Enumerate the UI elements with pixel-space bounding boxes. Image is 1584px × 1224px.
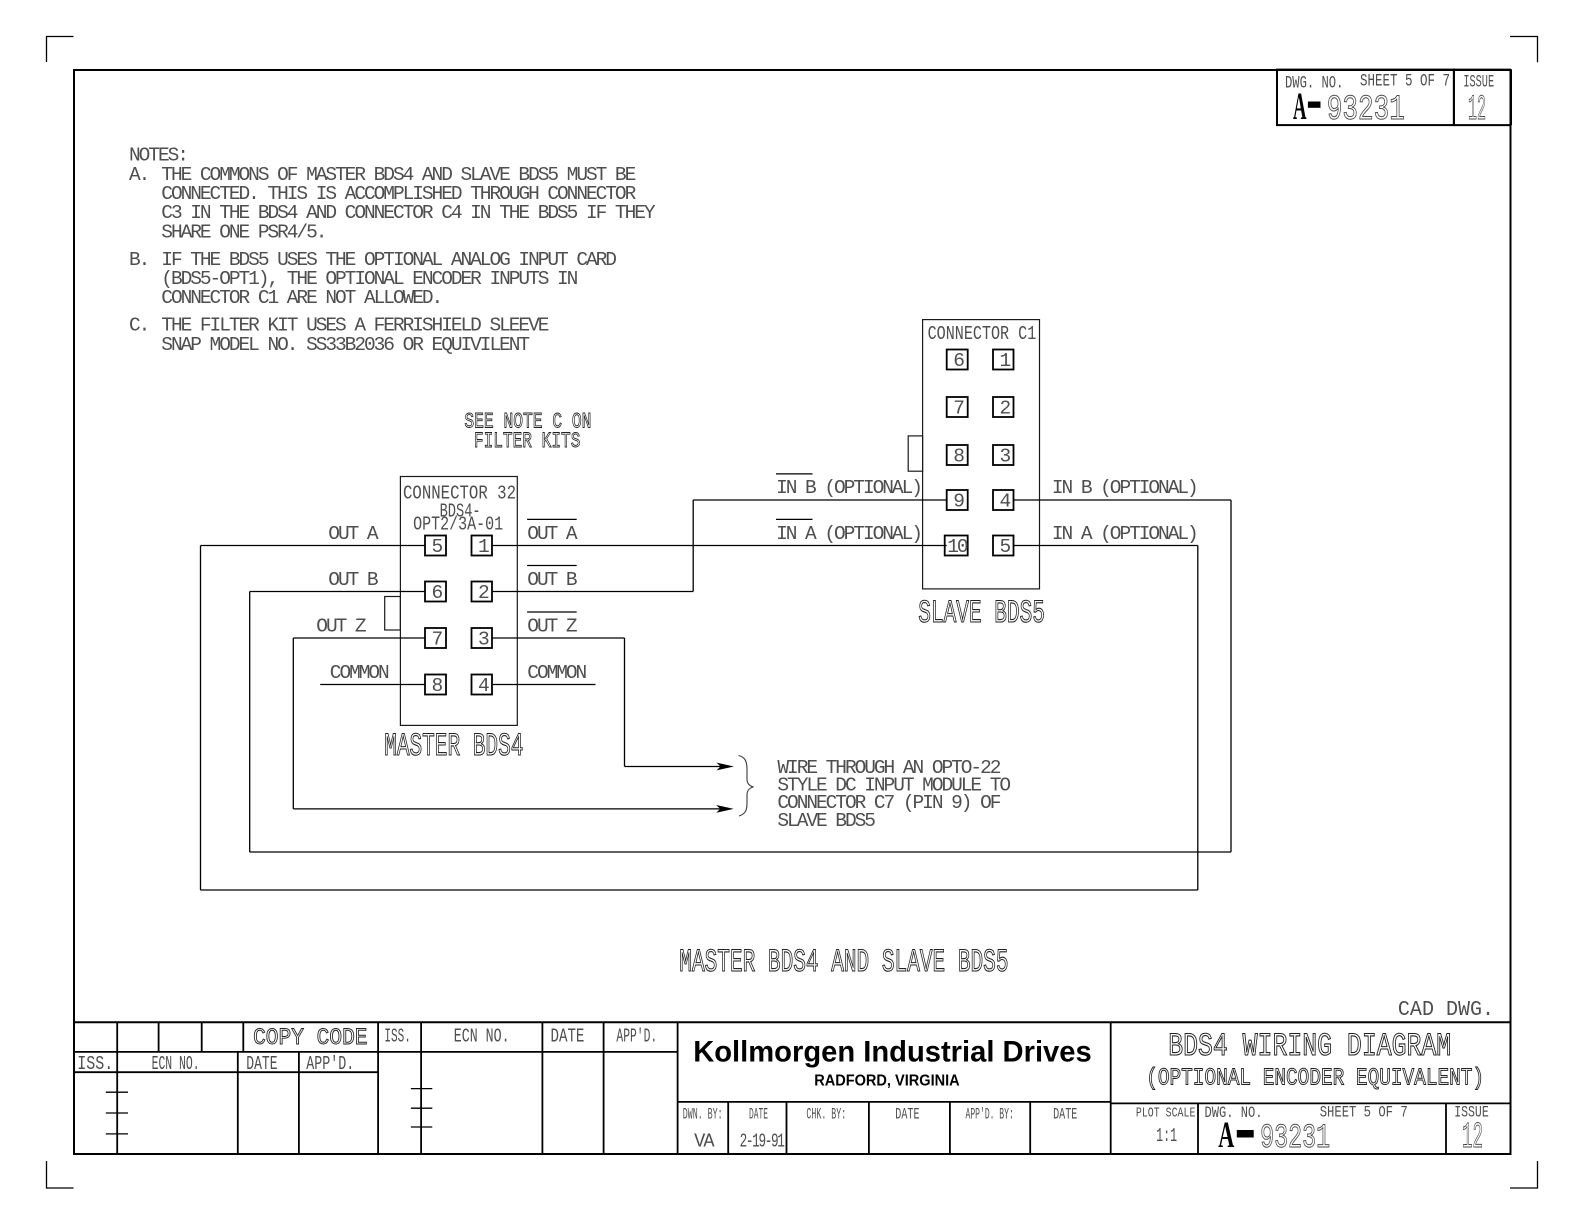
svg-text:5: 5	[432, 536, 443, 558]
wire OUT B left stub	[250, 591, 425, 593]
svg-text:C.: C.	[129, 315, 148, 337]
curly brace	[739, 756, 754, 817]
drawing title box	[1111, 1103, 1511, 1154]
pin 3 (master)	[472, 628, 493, 651]
svg-text:SLAVE BDS5: SLAVE BDS5	[777, 810, 875, 832]
corner mark bottom-right	[1510, 1161, 1538, 1188]
wire COMMON left stub	[320, 684, 425, 686]
note WIRE THROUGH AN OPTO-22 ...	[777, 757, 1010, 832]
company box Kollmorgen	[678, 1022, 1111, 1154]
pin 4 (slave)	[993, 490, 1014, 513]
arrowhead lower into brace	[716, 805, 734, 813]
pin 9 (slave)	[947, 490, 968, 513]
pin 3 (slave)	[993, 445, 1014, 468]
wire master pin 3 right	[492, 637, 625, 639]
svg-text:2-19-91: 2-19-91	[740, 1131, 785, 1153]
svg-text:CAD DWG.: CAD DWG.	[1398, 999, 1494, 1022]
label OUT A-bar (right) with overline	[527, 519, 578, 545]
svg-text:(OPTIONAL ENCODER EQUIVALENT): (OPTIONAL ENCODER EQUIVALENT)	[1146, 1066, 1484, 1093]
corner mark bottom-left	[47, 1161, 74, 1188]
svg-text:9: 9	[953, 491, 964, 513]
svg-text:7: 7	[432, 629, 443, 651]
svg-text:DWN. BY:: DWN. BY:	[683, 1105, 723, 1123]
wire OUT B loop left vertical	[249, 592, 251, 853]
corner mark top-left	[47, 37, 74, 63]
pin 5 (slave)	[993, 536, 1014, 559]
svg-text:4: 4	[478, 675, 489, 697]
wire master pin 2 right	[492, 591, 693, 593]
svg-text:ISS.: ISS.	[77, 1053, 113, 1075]
filter sleeve notch on slave connector	[908, 436, 922, 471]
svg-text:CHK. BY:: CHK. BY:	[806, 1105, 846, 1123]
svg-text:A: A	[1218, 1115, 1234, 1156]
svg-text:DATE: DATE	[551, 1026, 585, 1048]
svg-text:7: 7	[953, 398, 964, 420]
filter sleeve notch on master connector	[385, 597, 401, 631]
pin 4 (master)	[472, 675, 493, 698]
wire OUT B loop bottom horizontal	[250, 851, 1231, 853]
svg-text:APP'D.: APP'D.	[306, 1053, 354, 1075]
svg-text:A.: A.	[129, 164, 148, 186]
svg-text:DATE: DATE	[895, 1105, 919, 1123]
label IN A-bar (OPTIONAL) left with overline	[776, 519, 921, 545]
svg-text:DATE: DATE	[1053, 1105, 1077, 1123]
svg-text:MASTER BDS4 AND SLAVE BDS5: MASTER BDS4 AND SLAVE BDS5	[679, 944, 1008, 981]
wire OUT A loop bottom horizontal	[201, 889, 1198, 891]
pin 7 (master)	[425, 628, 446, 651]
pin 1 (master)	[472, 536, 493, 559]
svg-text:1: 1	[478, 536, 489, 558]
svg-text:5: 5	[1000, 536, 1011, 558]
svg-text:OUT A: OUT A	[328, 523, 379, 545]
svg-text:IN A (OPTIONAL): IN A (OPTIONAL)	[776, 523, 921, 545]
svg-text:VA: VA	[694, 1131, 715, 1153]
svg-text:8: 8	[432, 675, 443, 697]
wire OUT Z left stub	[293, 637, 425, 639]
wire OUT Z lower horizontal to opto arrow	[293, 808, 722, 810]
svg-text:1:1: 1:1	[1156, 1125, 1177, 1147]
wire OUT A left stub	[201, 545, 426, 547]
label OUT B-bar (right) with overline	[527, 566, 577, 592]
svg-text:ISS.: ISS.	[384, 1026, 411, 1048]
revision tick marks left column	[106, 1092, 128, 1134]
svg-text:8: 8	[953, 446, 964, 468]
svg-text:1: 1	[1000, 350, 1011, 372]
svg-text:6: 6	[432, 582, 443, 604]
svg-text:OUT A: OUT A	[527, 523, 578, 545]
svg-text:CONNECTOR C1 ARE NOT ALLOWED.: CONNECTOR C1 ARE NOT ALLOWED.	[161, 287, 441, 309]
pin 5 (master)	[425, 536, 446, 559]
svg-text:4: 4	[1000, 491, 1011, 513]
svg-text:SHEET 5 OF 7: SHEET 5 OF 7	[1320, 1104, 1408, 1122]
svg-text:IN B (OPTIONAL): IN B (OPTIONAL)	[776, 477, 921, 499]
svg-text:DATE: DATE	[749, 1105, 768, 1123]
svg-text:APP'D. BY:: APP'D. BY:	[966, 1105, 1014, 1123]
svg-text:IN B (OPTIONAL): IN B (OPTIONAL)	[1052, 477, 1197, 499]
pin 8 (slave)	[947, 445, 968, 468]
svg-text:SLAVE BDS5: SLAVE BDS5	[918, 595, 1045, 632]
wire slave pin 4 right stub	[1014, 499, 1232, 501]
pin 8 (master)	[425, 675, 446, 698]
svg-text:SHARE ONE PSR4/5.: SHARE ONE PSR4/5.	[161, 221, 325, 243]
pin 2 (master)	[472, 582, 493, 605]
pin 7 (slave)	[947, 397, 968, 420]
svg-text:2: 2	[1000, 398, 1011, 420]
wire to slave pin 9	[693, 499, 947, 501]
svg-text:93231: 93231	[1260, 1120, 1330, 1158]
label IN B-bar (OPTIONAL) left with overline	[776, 474, 921, 499]
wire master pin 2 vertical up	[692, 500, 694, 592]
wire slave pin 5 right stub	[1014, 545, 1198, 547]
wire COMMON right stub	[492, 684, 596, 686]
svg-text:ECN NO.: ECN NO.	[152, 1053, 200, 1075]
pin 2 (slave)	[993, 397, 1014, 420]
note SEE NOTE C ON FILTER KITS	[464, 409, 591, 454]
wire pin 3 horizontal to opto arrow	[625, 766, 723, 768]
svg-text:COPY CODE: COPY CODE	[253, 1025, 367, 1052]
svg-text:ECN NO.: ECN NO.	[454, 1026, 510, 1048]
pin 1 (slave)	[993, 350, 1014, 373]
wire master pin 3 vertical down	[624, 638, 626, 767]
svg-text:12: 12	[1462, 1117, 1483, 1158]
wire OUT B loop right vertical to slave IN B	[1230, 500, 1232, 852]
wire master pin 1 to slave pin 10	[492, 545, 947, 547]
svg-text:Kollmorgen Industrial Drives: Kollmorgen Industrial Drives	[693, 1036, 1091, 1069]
svg-text:CONNECTOR C1: CONNECTOR C1	[928, 323, 1037, 345]
svg-text:OUT Z: OUT Z	[316, 616, 366, 638]
svg-text:A: A	[1293, 85, 1307, 128]
pin 10 (slave)	[945, 536, 968, 559]
svg-text:OUT B: OUT B	[527, 569, 577, 591]
svg-text:APP'D.: APP'D.	[616, 1026, 657, 1048]
signature row grid	[728, 1102, 1030, 1154]
svg-text:DATE: DATE	[246, 1053, 277, 1075]
notes text block	[129, 145, 656, 356]
title block outline	[74, 1021, 1511, 1023]
pin 6 (slave)	[947, 350, 968, 373]
svg-text:OUT B: OUT B	[328, 569, 378, 591]
svg-text:2: 2	[478, 582, 489, 604]
title block left revision table grid	[74, 1022, 678, 1154]
arrowhead upper into brace	[717, 763, 735, 771]
svg-text:6: 6	[953, 350, 964, 372]
revision tick marks right column	[411, 1089, 432, 1127]
svg-text:3: 3	[478, 629, 489, 651]
svg-text:SNAP MODEL NO. SS33B2036 OR EQ: SNAP MODEL NO. SS33B2036 OR EQUIVILENT	[161, 334, 529, 356]
svg-text:OPT2/3A-01: OPT2/3A-01	[413, 514, 503, 536]
svg-text:3: 3	[1000, 446, 1011, 468]
wire OUT Z left vertical down	[292, 638, 294, 809]
svg-text:PLOT SCALE: PLOT SCALE	[1136, 1105, 1196, 1121]
svg-text:OUT Z: OUT Z	[527, 616, 577, 638]
svg-text:12: 12	[1468, 90, 1486, 130]
svg-text:MASTER BDS4: MASTER BDS4	[384, 728, 523, 765]
wire OUT A loop right vertical to slave IN A	[1197, 546, 1199, 891]
connector C1 outline (slave)	[923, 320, 1040, 589]
svg-text:RADFORD, VIRGINIA: RADFORD, VIRGINIA	[814, 1073, 960, 1090]
svg-text:IN A (OPTIONAL): IN A (OPTIONAL)	[1052, 523, 1197, 545]
svg-text:FILTER KITS: FILTER KITS	[474, 428, 581, 454]
svg-text:93231: 93231	[1327, 90, 1405, 130]
top-right DWG NO box	[1277, 70, 1511, 126]
svg-text:COMMON: COMMON	[527, 662, 586, 684]
svg-text:SHEET 5 OF 7: SHEET 5 OF 7	[1360, 72, 1450, 92]
wire OUT A loop left vertical	[200, 546, 202, 891]
pin 6 (master)	[425, 582, 446, 605]
connector 32 BDS4-OPT2/3A-01 outline (master)	[400, 477, 517, 726]
svg-text:COMMON: COMMON	[330, 662, 389, 684]
svg-text:B.: B.	[129, 249, 148, 271]
svg-text:10: 10	[947, 536, 968, 558]
corner mark top-right	[1510, 37, 1538, 63]
svg-text:BDS4 WIRING DIAGRAM: BDS4 WIRING DIAGRAM	[1168, 1028, 1451, 1065]
label OUT Z-bar (right) with overline	[527, 612, 577, 638]
